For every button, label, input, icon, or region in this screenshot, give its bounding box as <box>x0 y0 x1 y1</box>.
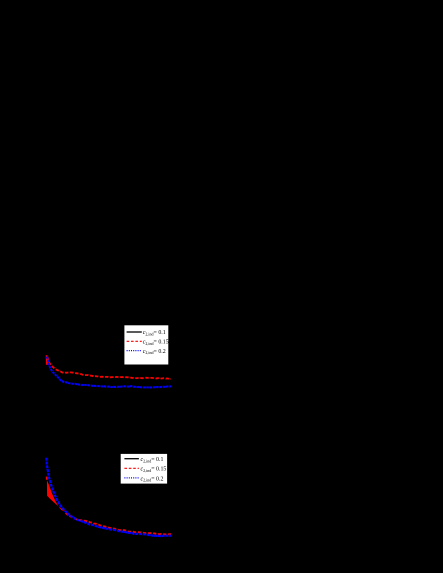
bottom chart: red dashed curve (c=0.15) <box>66 513 172 535</box>
bottom legend: blue dotted sample line <box>124 477 138 479</box>
bottom chart: red initial spike <box>46 477 48 480</box>
top legend: black solid sample line <box>127 331 142 333</box>
bottom chart: red oscillation fill triangle <box>47 480 66 511</box>
bottom legend: red dashed sample line <box>124 467 138 469</box>
bottom chart legend box <box>120 454 167 485</box>
top chart legend box <box>124 325 169 365</box>
top chart: red dashed curve (c=0.15) <box>48 357 172 379</box>
top chart: red dashed curve (c=0.15) initial spike <box>47 355 48 365</box>
top legend: blue dotted sample line <box>127 350 142 352</box>
top legend: red dashed sample line <box>127 340 142 342</box>
bottom legend: black solid sample line <box>124 458 138 460</box>
bottom chart: blue dotted curve (c=0.2) <box>46 458 171 536</box>
top chart: blue dotted curve (c=0.2) <box>47 357 171 388</box>
